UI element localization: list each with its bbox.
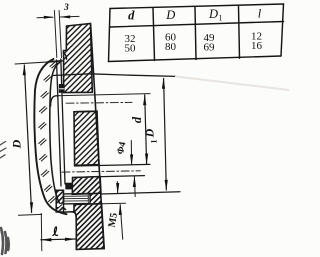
svg-text:80: 80 bbox=[165, 41, 177, 53]
l label bbox=[53, 227, 58, 235]
phi4 top arrow (from above) bbox=[130, 141, 132, 165]
D1 top extension line bbox=[53, 74, 177, 77]
M5 top arrow (from above) bbox=[116, 182, 118, 194]
faint scan shadow upper right bbox=[176, 77, 289, 91]
bore centerline bbox=[66, 101, 132, 104]
metal insert bottom (dark) bbox=[65, 183, 72, 190]
rim-to-hub fillet bbox=[63, 52, 66, 59]
svg-text:3: 3 bbox=[63, 3, 69, 13]
scan artifacts left edge bbox=[0, 142, 6, 159]
screw head bbox=[56, 190, 63, 212]
M5 screw shank bbox=[64, 194, 91, 204]
svg-text:1: 1 bbox=[150, 140, 159, 144]
dimension 3: extension lines bbox=[54, 11, 61, 58]
hatch right of screw bbox=[90, 193, 102, 203]
metal insert top (dark) bbox=[59, 84, 65, 93]
svg-text:D: D bbox=[9, 139, 23, 149]
l right arrow bbox=[65, 238, 76, 241]
dimension 3: arrows bbox=[44, 16, 54, 19]
hub bottom / flange bbox=[73, 204, 105, 250]
D1 dimension line bbox=[164, 79, 167, 191]
phi4 bottom arrow (from below) bbox=[133, 177, 136, 197]
phi4 bottom line bbox=[73, 176, 145, 178]
cap outer curve bbox=[34, 59, 66, 214]
D top arrow bbox=[23, 64, 26, 75]
bore bottom line bbox=[74, 110, 97, 113]
l dimension line bbox=[41, 238, 76, 241]
svg-text:1: 1 bbox=[219, 14, 223, 23]
svg-text:69: 69 bbox=[204, 42, 216, 54]
d dimension line bbox=[145, 95, 147, 164]
hub mid column bbox=[74, 111, 99, 165]
cap top extension line (D top) bbox=[15, 62, 48, 64]
svg-text:d: d bbox=[128, 9, 135, 23]
d top arrow bbox=[143, 94, 146, 105]
skirt top rounded corner bbox=[51, 96, 59, 106]
hub lower column bbox=[72, 177, 101, 195]
phi4 centerline bbox=[62, 171, 141, 172]
svg-text:D: D bbox=[208, 7, 218, 21]
svg-text:D: D bbox=[143, 128, 157, 138]
svg-text:D: D bbox=[165, 8, 175, 22]
hub top block bbox=[64, 24, 93, 93]
M5 bottom extension line bbox=[102, 202, 126, 205]
cap shell hatch ticks bbox=[39, 62, 62, 210]
d bottom arrow bbox=[145, 154, 148, 165]
l extension line left bbox=[40, 214, 43, 251]
hub right edge continuous bbox=[91, 24, 104, 248]
l left arrow bbox=[41, 238, 52, 241]
dimension 3: dim lines bbox=[37, 16, 79, 17]
svg-text:50: 50 bbox=[125, 43, 137, 55]
table frame bbox=[109, 4, 284, 62]
svg-text:16: 16 bbox=[251, 40, 263, 52]
D1 bottom arrow bbox=[165, 180, 168, 191]
D bottom arrow bbox=[30, 202, 33, 213]
M5 leader / bottom arrow bbox=[120, 205, 123, 240]
scan smudge bottom-left bbox=[1, 228, 9, 254]
D dimension line bbox=[24, 65, 31, 213]
flange top-left step bbox=[64, 212, 77, 250]
cap rim top bbox=[48, 61, 62, 62]
svg-text:l: l bbox=[258, 6, 262, 20]
M5 top extension line (and D1 bottom ext) bbox=[101, 192, 180, 194]
phi4 top line / d bottom extension bbox=[75, 164, 150, 166]
screw thread lines bbox=[64, 194, 89, 204]
D bottom extension line bbox=[18, 213, 41, 216]
d top extension line bbox=[57, 94, 151, 96]
D1 top arrow bbox=[162, 78, 165, 89]
cap inner curve bbox=[50, 63, 66, 210]
cap skirt verticals bbox=[57, 59, 66, 186]
svg-text:d: d bbox=[130, 116, 144, 123]
